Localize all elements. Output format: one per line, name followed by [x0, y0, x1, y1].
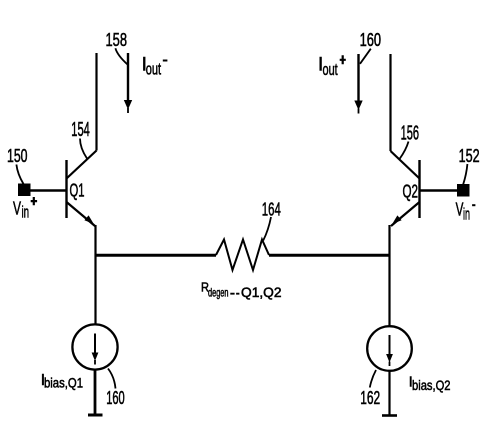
wire base Q1: [29, 189, 67, 191]
svg-text:158: 158: [106, 30, 128, 50]
svg-text:156: 156: [401, 123, 420, 145]
svg-text:150: 150: [7, 146, 28, 166]
svg-text:Q1,Q2: Q1,Q2: [241, 285, 282, 300]
leader 154: [80, 139, 87, 159]
leader 160 bottom: [108, 369, 116, 389]
svg-text:154: 154: [71, 119, 90, 141]
svg-text:out: out: [323, 60, 338, 79]
svg-text:162: 162: [360, 388, 380, 408]
wire collector Q2 vertical: [389, 54, 391, 151]
wire base Q2: [420, 189, 458, 191]
svg-text:in: in: [463, 205, 470, 224]
svg-text:degen: degen: [208, 286, 229, 300]
leader 164: [263, 217, 271, 241]
svg-text:160: 160: [360, 30, 382, 50]
svg-text:Q2: Q2: [403, 182, 419, 202]
svg-text:164: 164: [262, 200, 281, 220]
wire collector Q1 vertical: [95, 53, 97, 151]
leader 156: [400, 142, 409, 160]
transistor Q2 collector diagonal: [391, 151, 420, 179]
current source Ibias,Q2 circle: [367, 326, 412, 371]
svg-text:160: 160: [106, 388, 125, 408]
transistor Q1 emitter diagonal: [67, 202, 96, 226]
Iout+ arrow line: [357, 54, 359, 101]
resistor Rdegen zigzag: [216, 240, 269, 271]
current source Ibias,Q1 circle: [72, 324, 117, 369]
ground left: [88, 414, 103, 417]
leader 160 top: [360, 49, 371, 64]
transistor Q1 base bar: [65, 160, 67, 218]
leader 150: [16, 165, 23, 185]
ground right: [382, 414, 397, 417]
wire bus right segment: [269, 254, 390, 257]
svg-text:Q1: Q1: [70, 181, 85, 201]
transistor Q2 emitter arrowhead: [392, 215, 401, 224]
leader 162: [370, 370, 376, 388]
transistor Q2 base bar: [418, 160, 420, 218]
wire emitter Q1 vertical: [94, 225, 96, 324]
svg-text:bias,Q2: bias,Q2: [412, 377, 451, 393]
wire Ibias,Q1 to ground: [94, 371, 97, 415]
transistor Q1 emitter arrowhead: [84, 215, 93, 224]
leader 152: [463, 164, 467, 184]
wire emitter Q2 vertical: [388, 225, 390, 326]
current source Ibias,Q1 arrow: [94, 334, 96, 355]
transistor Q1 collector diagonal: [67, 151, 97, 179]
svg-text:in: in: [22, 203, 30, 222]
wire Ibias,Q2 to ground: [388, 372, 390, 416]
current source Ibias,Q2 arrow: [389, 335, 391, 356]
leader 158: [115, 48, 127, 64]
Iout+ arrowhead: [354, 101, 362, 111]
svg-text:bias,Q1: bias,Q1: [44, 375, 83, 391]
terminal Vin+ square 150: [18, 184, 31, 197]
Iout- arrow line: [127, 53, 129, 100]
wire bus left segment: [96, 254, 217, 257]
transistor Q2 emitter diagonal: [391, 202, 420, 226]
svg-text:V: V: [13, 197, 21, 218]
Iout- arrowhead: [124, 100, 132, 110]
svg-text:out: out: [146, 60, 162, 79]
svg-text:152: 152: [459, 146, 480, 166]
terminal Vin- square 152: [457, 184, 470, 197]
